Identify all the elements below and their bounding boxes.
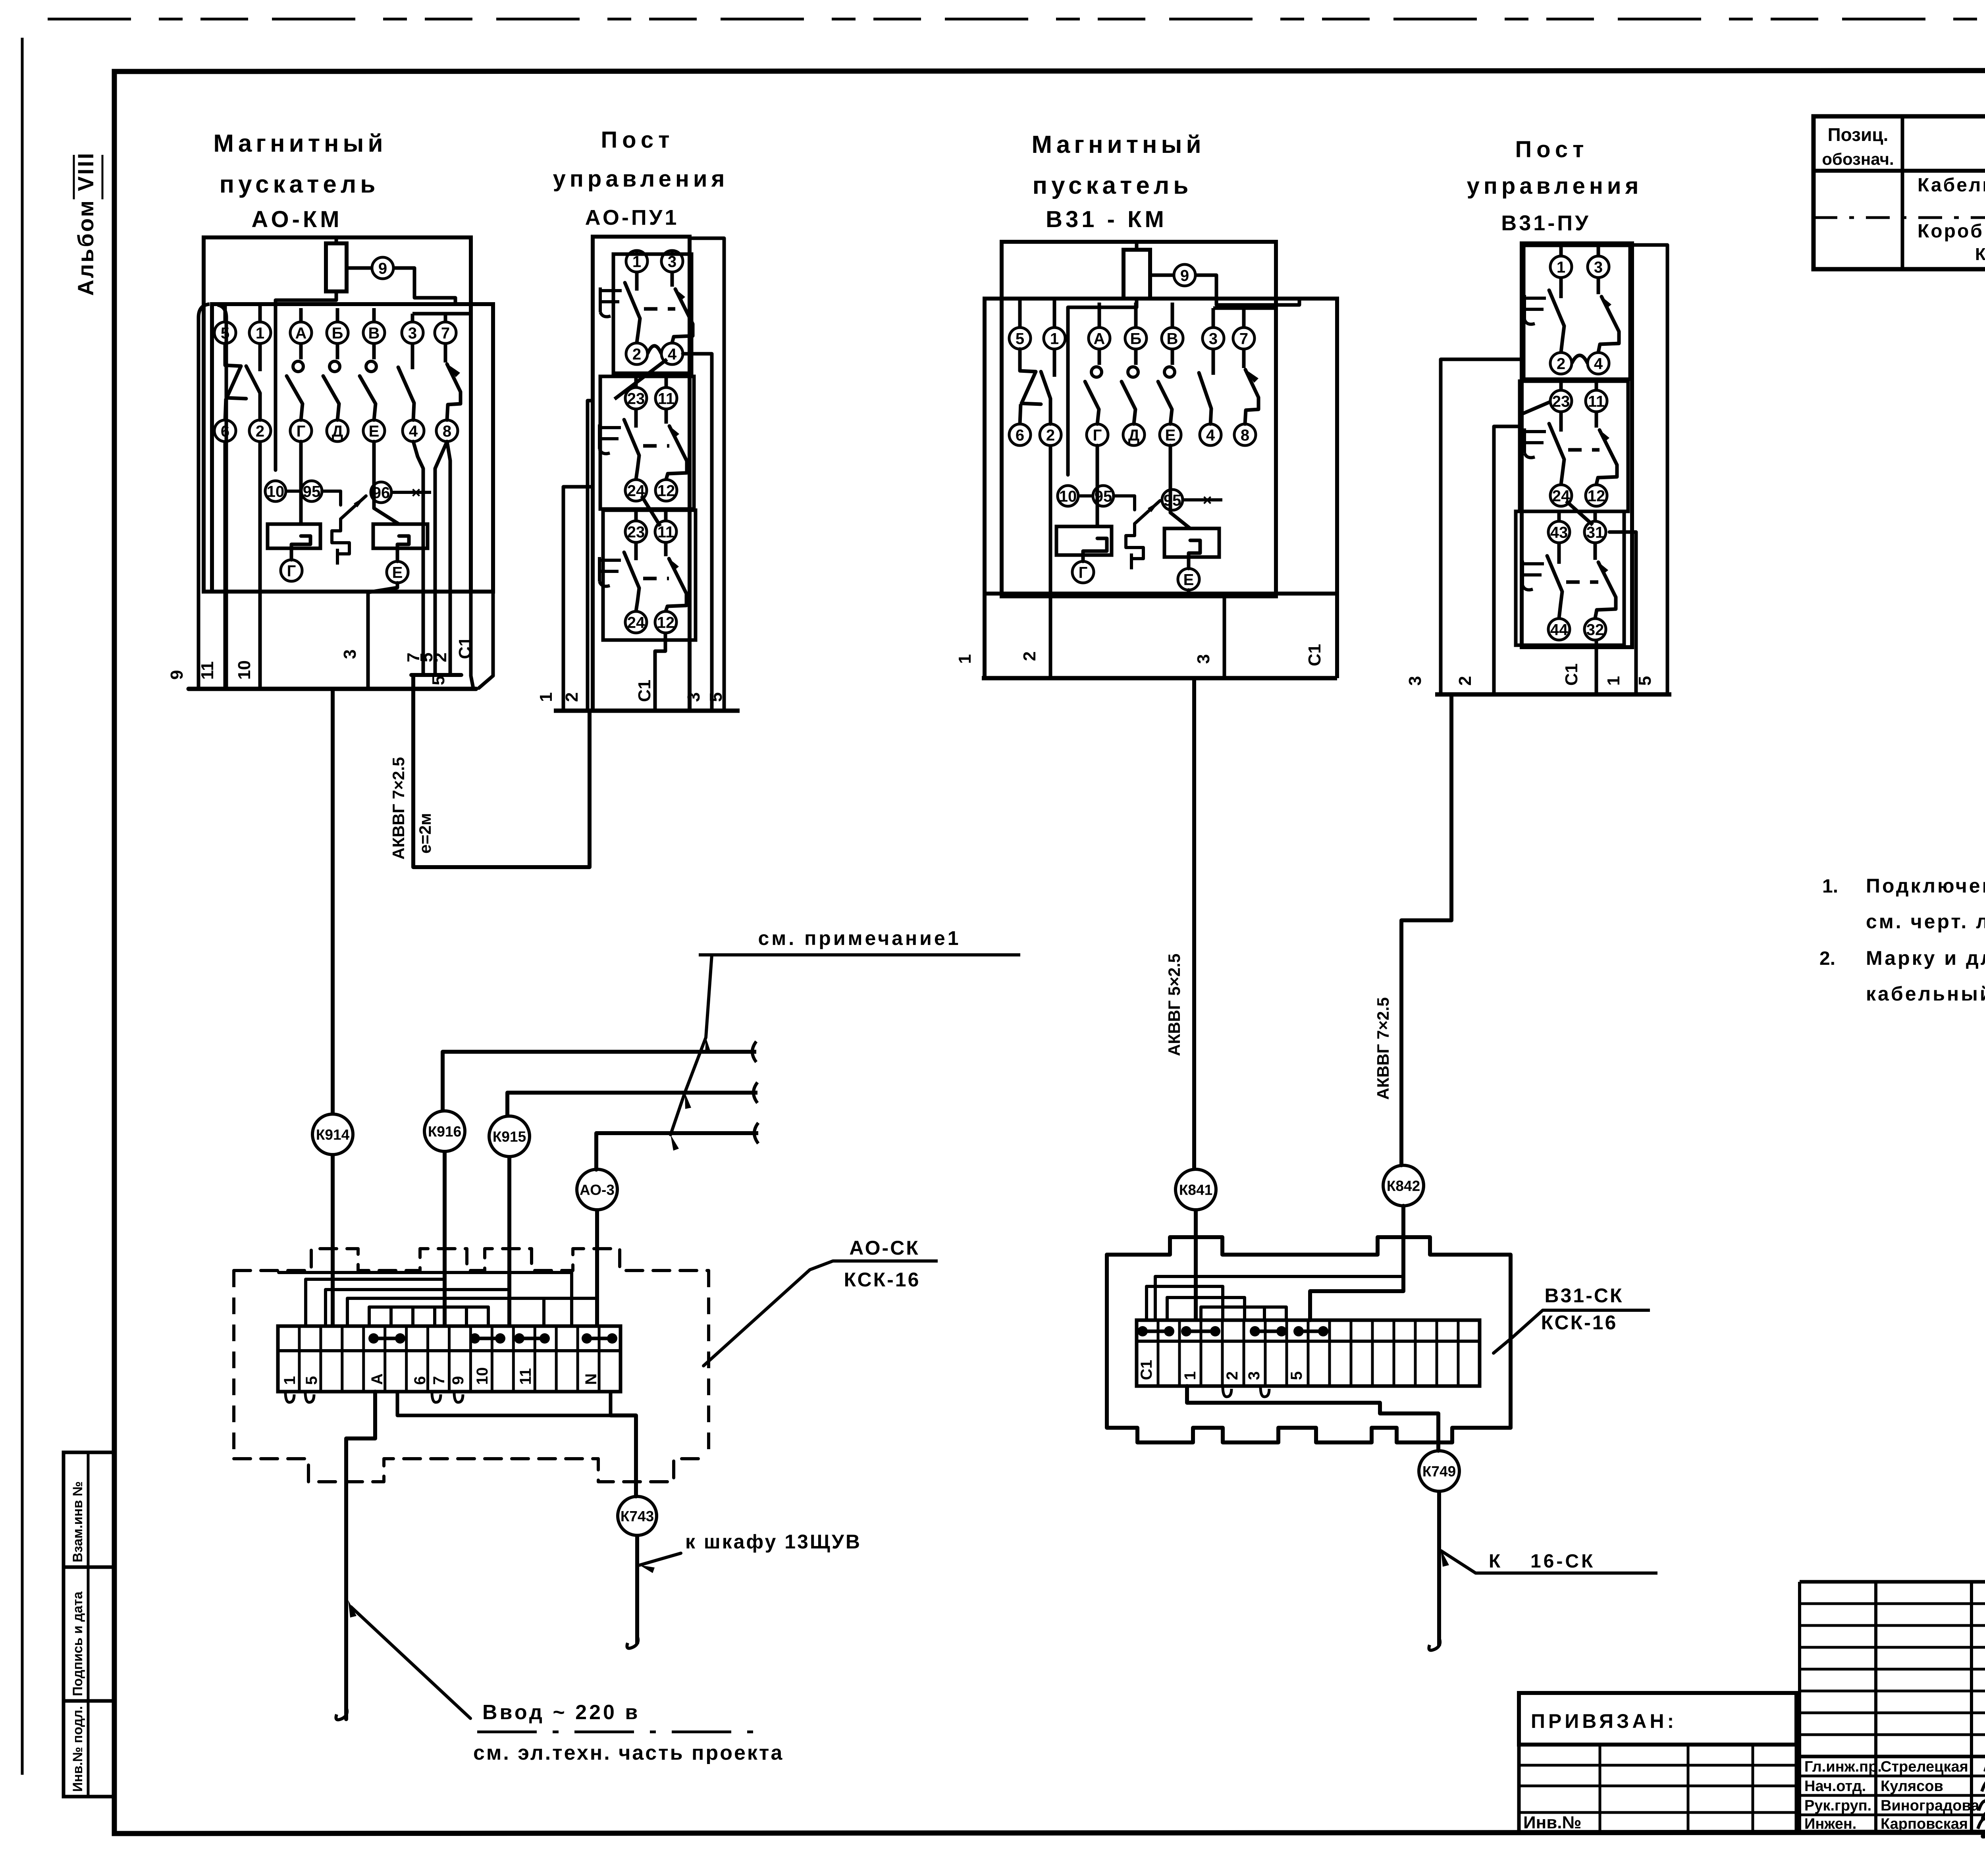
svg-text:10: 10	[235, 660, 254, 680]
svg-text:К916: К916	[428, 1123, 461, 1139]
V31-KM bottom bus	[982, 676, 1337, 681]
svg-text:С1: С1	[1562, 663, 1581, 686]
cable AO-3 riser	[594, 1133, 598, 1170]
V31-SK internal fan-out wires	[1147, 1286, 1223, 1320]
AO-PU1 section 2 top stubs	[634, 376, 638, 388]
V31-KM wire 96 to contact 4	[1183, 498, 1222, 501]
cable marker K916	[424, 1111, 465, 1151]
svg-text:N: N	[582, 1373, 600, 1385]
V31-KM contact 95-96 blade	[1135, 501, 1160, 524]
svg-text:к шкафу 13ЩУВ: к шкафу 13ЩУВ	[685, 1531, 861, 1553]
svg-text:Виноградова: Виноградова	[1881, 1797, 1979, 1814]
svg-text:23: 23	[627, 390, 645, 407]
svg-text:10: 10	[474, 1367, 491, 1385]
AO-PU1 section 2 pushbutton contact	[634, 409, 638, 428]
cable marker K915	[489, 1116, 530, 1157]
V31-PU wire 5	[1632, 245, 1667, 694]
V31-KM contact В-Е	[1171, 349, 1174, 365]
AO-PU1 wire 3	[683, 354, 712, 711]
AO-KM wire from terminal 9 to enclosure	[347, 266, 371, 270]
AO-KM internal drop wires	[198, 304, 210, 689]
AO-PU1 section 1 release contact	[671, 272, 674, 287]
svg-text:5: 5	[303, 1376, 320, 1385]
svg-text:5: 5	[429, 676, 448, 685]
svg-text:2: 2	[1046, 426, 1055, 444]
svg-text:2: 2	[562, 692, 582, 702]
svg-text:А: А	[1094, 330, 1105, 347]
svg-text:1: 1	[1181, 1371, 1199, 1380]
AO-KM coil	[326, 243, 347, 291]
svg-text:11: 11	[517, 1368, 534, 1385]
svg-text:Е: Е	[1183, 571, 1194, 588]
V31-KM enclosure inner	[985, 299, 1337, 594]
svg-text:Рук.груп.: Рук.груп.	[1804, 1797, 1871, 1814]
svg-text:Взам.инв №: Взам.инв №	[70, 1481, 85, 1562]
svg-text:АО-3: АО-3	[580, 1182, 615, 1198]
svg-text:2.: 2.	[1819, 948, 1835, 969]
svg-text:31: 31	[1586, 524, 1604, 541]
AO-KM auxiliary coil boxes	[268, 524, 320, 548]
AO-PU1 section 3 release contact	[664, 543, 668, 556]
AO-SK box bottom	[234, 1459, 709, 1482]
junction box V31-SK outline	[1107, 1237, 1511, 1428]
svg-text:К842: К842	[1387, 1178, 1420, 1194]
AO-KM contact 7-8	[444, 343, 447, 362]
svg-text:12: 12	[657, 482, 675, 499]
V31-KM top stubs row1	[1018, 299, 1022, 328]
svg-text:Пост: Пост	[601, 127, 674, 153]
AO-PU1 section 3 pushbutton contact	[634, 543, 638, 560]
V31-KM contact 7-8	[1242, 349, 1246, 368]
svg-text:К743: К743	[621, 1508, 654, 1524]
AO-PU1 section 2	[600, 376, 694, 509]
svg-text:×: ×	[1203, 492, 1212, 509]
svg-text:Г: Г	[1093, 426, 1102, 444]
svg-text:4: 4	[1594, 355, 1603, 372]
AO-KM right drop wires	[413, 442, 423, 675]
AO-KM contact 3-4	[411, 343, 414, 369]
svg-text:Нач.отд.: Нач.отд.	[1804, 1778, 1866, 1795]
AO-PU1 wire C1	[655, 633, 665, 711]
svg-text:44: 44	[1550, 621, 1568, 638]
cable marker AO-3	[577, 1169, 617, 1210]
AO-PU1 section 2 mechanical link	[643, 444, 669, 448]
svg-text:К841: К841	[1179, 1182, 1212, 1198]
V31-SK strip hooks	[1223, 1386, 1231, 1397]
AO-PU1 enclosure	[593, 237, 690, 711]
svg-text:Инв.№ подл.: Инв.№ подл.	[70, 1706, 85, 1792]
AO-KM contact Б-Д	[336, 343, 339, 359]
input 220V leader	[351, 1607, 470, 1718]
AO-KM aux terminal 9	[372, 257, 393, 279]
V31-KM main contact terminals bottom row	[1009, 424, 1031, 445]
svg-text:23: 23	[627, 523, 645, 541]
svg-text:С1: С1	[1305, 644, 1324, 666]
AO-KM bottom terminal Е	[387, 561, 408, 583]
svg-text:В: В	[368, 324, 380, 342]
svg-text:5: 5	[706, 692, 726, 702]
V31-KM bottom terminal Е	[1178, 569, 1199, 590]
svg-text:4: 4	[409, 422, 418, 440]
V31-KM heater element	[1114, 496, 1135, 510]
svg-text:Гл.инж.пр.: Гл.инж.пр.	[1804, 1758, 1882, 1775]
svg-text:Позиц.: Позиц.	[1828, 124, 1889, 145]
V31-PU cross wire 4-23	[1520, 402, 1550, 415]
svg-text:7: 7	[441, 324, 450, 342]
cable K916 riser	[441, 1052, 445, 1111]
svg-text:3: 3	[668, 253, 676, 270]
AO-KM heater element	[322, 491, 341, 505]
svg-text:7: 7	[430, 1376, 448, 1385]
AO-PU1 section 1 pushbutton contact	[635, 272, 639, 291]
V31-PU section 1 top stubs	[1559, 245, 1563, 256]
V31-PU bottom bus	[1435, 692, 1671, 697]
AO-PU1 section 3 top stubs	[634, 510, 638, 521]
V31-KM main contact terminals top row	[1009, 328, 1031, 349]
AO-KM overload contacts 10-95-96	[265, 481, 286, 501]
AO-KM enclosure inner	[212, 304, 493, 592]
V31-PU cross wire 24-31	[1566, 501, 1593, 525]
svg-text:6: 6	[411, 1376, 429, 1385]
AO-KM enclosure outer	[204, 237, 471, 592]
V31-KM contact A-Г	[1098, 349, 1101, 365]
margin box Подпись и дата	[64, 1567, 114, 1701]
svg-text:9: 9	[449, 1376, 467, 1385]
V31-PU section 1	[1524, 245, 1630, 379]
svg-text:11: 11	[1588, 393, 1605, 410]
svg-text:В31-ПУ: В31-ПУ	[1501, 211, 1590, 235]
V31-KM contact 5-6	[1020, 349, 1041, 404]
svg-text:1: 1	[281, 1376, 299, 1385]
svg-text:Марку и длины кабелей смот: Марку и длины кабелей смотреть	[1866, 947, 1985, 969]
svg-text:АО-СК: АО-СК	[849, 1237, 920, 1259]
svg-text:см. эл.техн. часть проекта: см. эл.техн. часть проекта	[473, 1741, 784, 1764]
svg-text:8: 8	[443, 422, 451, 440]
V31-SK terminal strip	[1137, 1320, 1480, 1386]
svg-text:К914: К914	[316, 1126, 350, 1143]
AO-KM bottom bus	[189, 687, 476, 691]
svg-text:ПРИВЯЗАН:: ПРИВЯЗАН:	[1531, 1710, 1677, 1732]
AO-SK internal fan-out wires	[306, 1279, 445, 1326]
AO-SK terminal strip	[278, 1326, 621, 1392]
AO-PU1 section 1 bottom link	[648, 346, 661, 354]
V31-PU wire 1	[1609, 532, 1636, 694]
svg-text:АКВВГ 7×2.5: АКВВГ 7×2.5	[389, 757, 408, 860]
V31-PU wire C1	[1595, 640, 1598, 694]
svg-text:Коробка соединительная: Коробка соединительная	[1918, 221, 1985, 242]
svg-text:Кабель АКВВГ 7×2.5: Кабель АКВВГ 7×2.5	[1918, 175, 1985, 196]
svg-text:43: 43	[1550, 524, 1568, 541]
svg-text:Г: Г	[297, 422, 306, 440]
svg-text:Подпись и дата: Подпись и дата	[70, 1591, 85, 1696]
svg-text:С1: С1	[635, 680, 654, 702]
svg-text:6: 6	[1016, 426, 1024, 444]
svg-text:2: 2	[1557, 355, 1565, 372]
svg-text:2: 2	[1224, 1371, 1241, 1380]
svg-text:32: 32	[1586, 621, 1604, 638]
parts table row divider	[1813, 216, 1985, 219]
wire 11 down from contact 6	[218, 305, 226, 689]
AO-PU1 section 1	[613, 254, 692, 373]
svg-text:КСК-16: КСК-16	[1541, 1311, 1618, 1334]
svg-text:Магнитный: Магнитный	[1031, 131, 1205, 158]
cable marker K749	[1419, 1451, 1459, 1491]
svg-text:16-СК: 16-СК	[1530, 1551, 1595, 1572]
V31-KM overload contacts 10-95-96	[1058, 486, 1078, 506]
svg-text:2: 2	[1455, 676, 1475, 686]
wire AO-3 to external	[596, 1131, 758, 1135]
AO-KM wire coil to terminal 10	[276, 291, 336, 470]
svg-text:АО-КМ: АО-КМ	[251, 206, 342, 232]
svg-text:10: 10	[1059, 488, 1077, 505]
V31-SK output wire to K749	[1187, 1386, 1438, 1451]
parts table columns	[1901, 116, 1904, 269]
svg-text:КСК-16: КСК-16	[1975, 245, 1985, 264]
sheet left edge scan line	[21, 38, 24, 1775]
V31-PU section 3	[1516, 511, 1624, 645]
AO-SK output wire to K743	[397, 1392, 611, 1415]
V31-KM coil	[1124, 250, 1150, 299]
AO-KM contact A-Г	[299, 343, 303, 359]
svg-text:8: 8	[1241, 426, 1249, 444]
svg-text:е=2м: е=2м	[416, 813, 434, 854]
svg-text:Кулясов: Кулясов	[1881, 1778, 1943, 1795]
parts table	[1813, 116, 1985, 269]
svg-text:24: 24	[627, 614, 645, 631]
svg-text:1: 1	[632, 253, 641, 270]
AO-KM main contact terminals top row	[214, 322, 236, 343]
V31-PU section 2	[1520, 381, 1628, 511]
V31-KM bottom terminal Г	[1072, 561, 1094, 583]
svg-text:9: 9	[1180, 267, 1189, 284]
cable marker K842	[1383, 1165, 1424, 1206]
svg-text:Г: Г	[287, 562, 296, 580]
V31-KM wire 3 down	[1189, 590, 1224, 678]
svg-text:управления: управления	[553, 166, 729, 192]
svg-text:обознач.: обознач.	[1822, 150, 1894, 168]
parts table header row line	[1813, 169, 1985, 173]
AO-KM contact 1-2	[258, 343, 262, 371]
svg-text:В: В	[1167, 330, 1178, 347]
svg-text:3: 3	[1209, 330, 1218, 347]
V31-PU section 3 top stubs	[1557, 511, 1561, 521]
K842 wire into box	[1310, 1206, 1403, 1320]
AO-PU1 section 3	[603, 510, 696, 640]
svg-text:11: 11	[658, 390, 675, 407]
svg-text:К749: К749	[1422, 1463, 1456, 1479]
svg-text:К: К	[1489, 1551, 1501, 1572]
signature grid	[1800, 1580, 1985, 1584]
svg-text:Альбом VIII: Альбом VIII	[73, 151, 98, 296]
AO-PU1 section 1 mechanical link	[644, 307, 675, 311]
svg-text:2: 2	[1020, 652, 1039, 661]
svg-text:Карповская: Карповская	[1881, 1816, 1968, 1832]
V31-PU enclosure	[1522, 243, 1632, 647]
margin box Взам. инв №	[64, 1452, 114, 1567]
svg-text:Стрелецкая: Стрелецкая	[1881, 1758, 1968, 1775]
svg-text:АО-ПУ1: АО-ПУ1	[585, 206, 679, 229]
cable K915 riser	[505, 1093, 509, 1116]
svg-text:4: 4	[1206, 426, 1215, 444]
svg-text:Б: Б	[332, 324, 343, 342]
wire 10 down from contact 2	[258, 442, 262, 689]
svg-text:1: 1	[1557, 258, 1565, 276]
svg-text:см. черт. лист АС-24.: см. черт. лист АС-24.	[1866, 910, 1985, 933]
svg-text:1: 1	[1050, 330, 1059, 347]
AO-PU1 wire 5	[690, 238, 724, 711]
svg-text:23: 23	[1552, 393, 1570, 410]
AO-PU1 wire 1	[563, 487, 593, 711]
AO-KM bottom terminal Г	[281, 560, 302, 581]
svg-text:5: 5	[1635, 676, 1655, 686]
svg-text:10: 10	[267, 483, 285, 500]
V31-SK jumpers	[1143, 1330, 1169, 1333]
svg-text:2: 2	[256, 422, 264, 440]
cable marker K743	[618, 1496, 657, 1535]
V31-PU section 3 pushbutton contact	[1557, 543, 1561, 564]
svg-text:АКВВГ 5×2.5: АКВВГ 5×2.5	[1165, 954, 1183, 1056]
svg-text:2: 2	[431, 653, 450, 662]
svg-text:В31 - КМ: В31 - КМ	[1046, 206, 1167, 232]
svg-text:Инжен.: Инжен.	[1804, 1816, 1856, 1832]
svg-text:1: 1	[256, 324, 264, 342]
svg-text:Д: Д	[1128, 426, 1140, 444]
V31-PU section 2 top stubs	[1559, 381, 1563, 390]
svg-text:Пост: Пост	[1515, 137, 1588, 162]
svg-text:3: 3	[1594, 258, 1603, 276]
AO-SK jumpers	[374, 1337, 400, 1340]
svg-text:КСК-16: КСК-16	[844, 1269, 921, 1291]
AO-KM wire 96 to contact 4	[391, 491, 431, 494]
svg-text:9: 9	[378, 260, 387, 277]
AO-KM wire 3 down	[368, 583, 397, 689]
junction box AO-SK outline	[234, 1249, 709, 1271]
V31-KM contact Б-Д	[1134, 349, 1138, 365]
svg-text:пускатель: пускатель	[1033, 172, 1193, 199]
margin box Инв.№ подл.	[64, 1701, 114, 1797]
svg-text:5: 5	[1288, 1371, 1305, 1380]
svg-text:1: 1	[955, 654, 975, 664]
svg-text:Б: Б	[1130, 330, 1142, 347]
cable K841 riser	[1192, 678, 1196, 1169]
svg-text:Е: Е	[392, 564, 403, 581]
AO-PU1 section 3 mechanical link	[643, 577, 669, 580]
V31-KM wire 2 down	[1049, 445, 1052, 678]
V31-KM drop wires	[983, 594, 987, 678]
AO-KM contact 5-6	[225, 343, 246, 399]
V31-KM enclosure outer	[1002, 242, 1276, 596]
svg-text:3: 3	[1194, 654, 1213, 664]
svg-text:1: 1	[1604, 676, 1623, 686]
svg-text:С1: С1	[1138, 1360, 1155, 1380]
svg-text:3: 3	[684, 692, 703, 702]
AO-SK box sides	[232, 1271, 235, 1459]
AO-PU1 wire 2	[588, 401, 593, 711]
V31-PU wire 2	[1494, 426, 1522, 694]
cable marker K914	[312, 1114, 353, 1155]
svg-text:3: 3	[340, 650, 360, 659]
cable K842 riser	[1401, 694, 1451, 1165]
AO-KM main contact terminals bottom row	[214, 420, 236, 442]
V31-PU section 1 release contact	[1597, 278, 1600, 294]
V31-KM contact 1-2	[1053, 349, 1056, 377]
AO-KM mini bus	[411, 673, 461, 677]
svg-text:Подключение кабелей ℓК915,К9: Подключение кабелей ℓК915,К916,АО-3	[1866, 875, 1985, 897]
sheet top edge scan line	[48, 18, 1985, 21]
svg-text:11: 11	[198, 661, 217, 680]
svg-text:12: 12	[657, 614, 675, 631]
svg-text:Д: Д	[332, 422, 343, 440]
V31-PU section 1 pushbutton contact	[1559, 278, 1563, 298]
V31-PU section 2 mechanical link	[1568, 448, 1600, 452]
wire K915 to external	[507, 1091, 757, 1095]
svg-text:1: 1	[536, 692, 556, 702]
svg-text:95: 95	[303, 483, 321, 500]
svg-text:АКВВГ 7×2.5: АКВВГ 7×2.5	[1374, 997, 1392, 1100]
V31-KM wires to coil boxes	[1096, 445, 1099, 526]
svg-text:3: 3	[1245, 1371, 1263, 1380]
svg-text:2: 2	[632, 345, 641, 363]
V31-PU section 3 release contact	[1594, 543, 1597, 560]
cable marker K841	[1176, 1169, 1216, 1210]
AO-PU1 cross wire 4-23	[615, 359, 667, 399]
AO-SK output wire A (power input)	[346, 1392, 375, 1719]
V31-KM auxiliary coil boxes	[1056, 526, 1112, 555]
AO-SK strip hooks	[285, 1392, 294, 1402]
svg-text:1.: 1.	[1822, 876, 1838, 897]
privyazan box	[1519, 1693, 1796, 1745]
AO-PU1 section 1 top stubs	[635, 251, 639, 254]
AO-KM wires to coil boxes	[299, 442, 303, 524]
svg-text:В31-СК: В31-СК	[1545, 1284, 1624, 1307]
V31-PU section 3 mechanical link	[1566, 580, 1598, 584]
svg-text:×: ×	[411, 484, 420, 501]
V31-PU section 1 bottom link	[1572, 355, 1588, 363]
svg-text:см. примечание1: см. примечание1	[758, 927, 961, 949]
svg-text:Е: Е	[369, 422, 380, 440]
V31-KM contact 3-4	[1212, 349, 1215, 375]
svg-text:Ввод ~ 220 в: Ввод ~ 220 в	[482, 1701, 640, 1724]
V31-PU wire 3	[1441, 359, 1522, 694]
svg-text:А: А	[295, 324, 307, 342]
svg-text:Магнитный: Магнитный	[213, 130, 387, 157]
svg-text:9: 9	[167, 670, 187, 680]
note 1 leader line	[671, 955, 712, 1135]
cable link AO-KM to AO-PU1	[413, 689, 590, 867]
svg-text:кабельный журнал.: кабельный журнал.	[1866, 983, 1985, 1005]
svg-text:12: 12	[1588, 487, 1605, 505]
privyazan grid	[1519, 1745, 1796, 1832]
svg-text:Г: Г	[1079, 564, 1088, 581]
svg-text:95: 95	[1164, 492, 1181, 509]
svg-text:А: А	[368, 1373, 386, 1385]
AO-KM contact 95-96 blade	[341, 496, 366, 519]
V31-KM wire from terminal 9 to enclosure	[1150, 274, 1173, 277]
AO-KM top stubs row1	[224, 304, 227, 322]
V31-KM aux terminal 9	[1174, 264, 1195, 286]
svg-text:управления: управления	[1467, 173, 1643, 199]
V31-PU section 2 release contact	[1595, 412, 1598, 428]
svg-text:7: 7	[1239, 330, 1248, 347]
svg-text:С1: С1	[455, 637, 475, 659]
V31-KM wire coil to terminal 10	[1068, 299, 1137, 475]
svg-text:3: 3	[1405, 676, 1425, 686]
svg-text:пускатель: пускатель	[220, 171, 380, 198]
AO-PU1 cross wire 24-11 section2-3	[642, 496, 660, 526]
svg-text:Е: Е	[1165, 426, 1176, 444]
svg-text:Инв.№: Инв.№	[1523, 1813, 1582, 1832]
V31-PU section 2 pushbutton contact	[1559, 412, 1563, 432]
